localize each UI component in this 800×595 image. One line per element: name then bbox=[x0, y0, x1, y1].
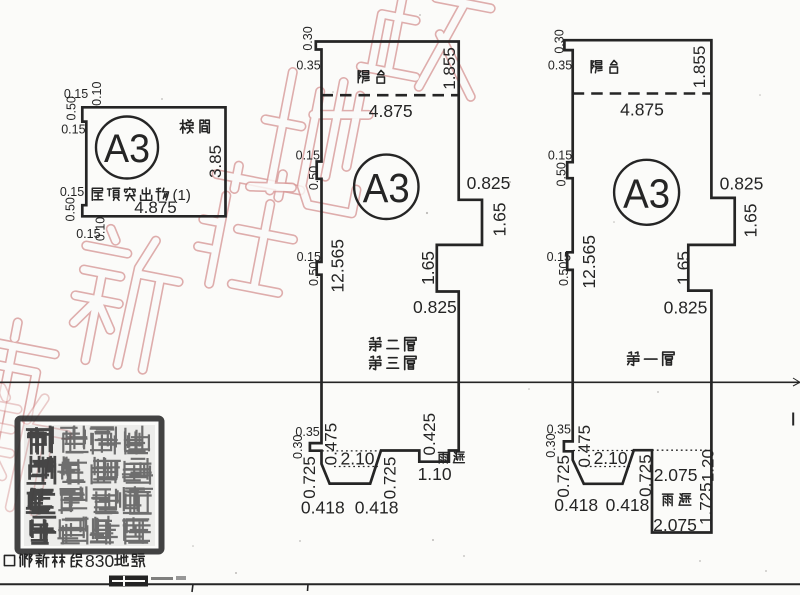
svg-text:0.825: 0.825 bbox=[413, 297, 457, 317]
middle plan floor label 第二層 bbox=[369, 338, 381, 351]
right plan unit circle A3 bbox=[614, 160, 679, 225]
svg-text:0.15: 0.15 bbox=[76, 227, 100, 241]
svg-text:4.875: 4.875 bbox=[620, 100, 664, 120]
svg-text:0.725: 0.725 bbox=[300, 456, 319, 499]
svg-text:0.825: 0.825 bbox=[664, 298, 708, 318]
right plan eave label 雨遮 bbox=[663, 494, 674, 506]
horizontal rule across page bbox=[0, 381, 800, 383]
svg-text:2.10: 2.10 bbox=[594, 448, 628, 468]
svg-text:1.725: 1.725 bbox=[696, 482, 715, 525]
svg-text:12.565: 12.565 bbox=[579, 235, 599, 289]
middle plan floor label 第三層 bbox=[369, 356, 381, 369]
watermark char 莊 bbox=[192, 161, 305, 298]
svg-text:1.855: 1.855 bbox=[440, 47, 459, 90]
svg-text:0.50: 0.50 bbox=[557, 262, 571, 286]
land parcel label 口鄉新林段830地號 bbox=[4, 555, 14, 565]
left plan room label 梯間 (stairwell) bbox=[180, 120, 193, 133]
svg-text:0.15: 0.15 bbox=[61, 123, 85, 137]
svg-text:830: 830 bbox=[85, 551, 114, 571]
middle plan unit circle A3 bbox=[354, 155, 418, 219]
official seal stamp interior wash bbox=[24, 425, 155, 546]
bottom rule line bbox=[0, 583, 800, 585]
svg-text:0.15: 0.15 bbox=[296, 149, 320, 163]
svg-text:4.875: 4.875 bbox=[134, 198, 177, 217]
svg-text:A3: A3 bbox=[363, 165, 410, 211]
svg-text:0.725: 0.725 bbox=[636, 454, 655, 497]
svg-text:1.65: 1.65 bbox=[418, 251, 438, 285]
right plan balcony dashed line bbox=[573, 92, 712, 95]
svg-text:0.425: 0.425 bbox=[420, 413, 439, 456]
right plan balcony label 陽台 bbox=[591, 61, 602, 73]
watermark char 政 bbox=[359, 0, 497, 97]
left plan unit circle A3 bbox=[96, 117, 158, 179]
svg-text:0.30: 0.30 bbox=[544, 433, 558, 457]
right plan outline bbox=[564, 40, 735, 532]
tick on bottom rule bbox=[307, 584, 310, 591]
middle plan balcony label 陽台 bbox=[358, 71, 369, 83]
svg-text:0.825: 0.825 bbox=[467, 173, 511, 193]
middle plan outline bbox=[310, 42, 482, 484]
dark smudge mark bbox=[109, 576, 186, 587]
middle plan dotted hidden edge 2 bbox=[334, 466, 378, 468]
svg-text:1.65: 1.65 bbox=[490, 202, 510, 236]
svg-text:0.725: 0.725 bbox=[380, 457, 399, 500]
svg-text:0.725: 0.725 bbox=[554, 455, 573, 498]
svg-text:2.10: 2.10 bbox=[340, 449, 374, 469]
middle plan dotted hidden edge bbox=[322, 450, 380, 452]
svg-text:0.30: 0.30 bbox=[553, 29, 567, 53]
svg-text:0.10: 0.10 bbox=[90, 81, 104, 105]
svg-text:12.565: 12.565 bbox=[328, 239, 348, 293]
watermark char 新 bbox=[64, 225, 186, 375]
svg-text:1.65: 1.65 bbox=[673, 251, 693, 285]
svg-text:0.418: 0.418 bbox=[355, 498, 399, 518]
left plan outline (roof stair penthouse) bbox=[82, 107, 225, 216]
right plan floor label 第一層 bbox=[627, 352, 639, 365]
short mark at right edge bbox=[792, 413, 794, 426]
right plan dotted hidden edge bbox=[573, 450, 633, 452]
svg-text:1.10: 1.10 bbox=[418, 464, 452, 484]
left plan label 屋頂突出物(1) bbox=[92, 188, 103, 200]
svg-text:A3: A3 bbox=[623, 171, 670, 217]
svg-text:0.475: 0.475 bbox=[321, 423, 340, 466]
svg-text:0.475: 0.475 bbox=[575, 425, 594, 468]
svg-text:0.30: 0.30 bbox=[291, 435, 305, 459]
svg-text:1.20: 1.20 bbox=[698, 449, 717, 482]
svg-text:0.50: 0.50 bbox=[64, 197, 78, 221]
tick on bottom rule bbox=[192, 584, 193, 592]
svg-text:0.35: 0.35 bbox=[548, 59, 572, 73]
svg-text:0.50: 0.50 bbox=[554, 162, 568, 186]
svg-text:0.50: 0.50 bbox=[307, 166, 321, 190]
watermark char (faint, bottom-left under seal) bbox=[0, 383, 74, 517]
watermark char 地 bbox=[249, 68, 376, 213]
watermark char 市 (left edge) bbox=[0, 314, 59, 449]
svg-text:4.875: 4.875 bbox=[369, 101, 413, 121]
svg-text:0.418: 0.418 bbox=[554, 495, 598, 515]
svg-text:2.075: 2.075 bbox=[654, 465, 698, 485]
svg-text:0.15: 0.15 bbox=[548, 149, 572, 163]
svg-text:1.65: 1.65 bbox=[740, 203, 760, 237]
middle plan eave label 雨遮 bbox=[438, 453, 448, 464]
svg-text:0.418: 0.418 bbox=[301, 498, 345, 518]
svg-text:0.35: 0.35 bbox=[296, 59, 320, 73]
svg-text:2.075: 2.075 bbox=[653, 515, 697, 535]
svg-text:0.50: 0.50 bbox=[307, 262, 321, 286]
middle plan balcony dashed line bbox=[322, 94, 459, 97]
svg-text:1.855: 1.855 bbox=[690, 46, 709, 89]
svg-text:0.825: 0.825 bbox=[720, 174, 764, 194]
svg-text:0.50: 0.50 bbox=[65, 96, 79, 120]
svg-text:0.15: 0.15 bbox=[60, 185, 84, 199]
official seal stamp border bbox=[18, 419, 162, 552]
right plan dotted hidden edge 2 bbox=[585, 466, 630, 468]
official seal stamp interior seal-script bbox=[26, 426, 153, 545]
right plan dotted eave top edge bbox=[652, 449, 711, 451]
svg-text:0.418: 0.418 bbox=[606, 495, 650, 515]
svg-text:3.85: 3.85 bbox=[206, 145, 225, 178]
svg-text:A3: A3 bbox=[104, 127, 150, 171]
svg-text:0.30: 0.30 bbox=[301, 26, 315, 50]
